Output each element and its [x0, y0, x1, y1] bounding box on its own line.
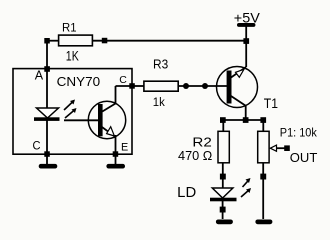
svg-text:LD: LD: [177, 185, 196, 201]
svg-text:A: A: [35, 68, 44, 82]
svg-text:T1: T1: [264, 95, 278, 111]
svg-text:OUT: OUT: [290, 151, 318, 165]
svg-text:C: C: [119, 74, 127, 86]
svg-text:C: C: [33, 139, 41, 153]
svg-text:+5V: +5V: [234, 10, 260, 25]
svg-text:1k: 1k: [153, 95, 166, 109]
svg-text:R1: R1: [62, 23, 77, 35]
svg-text:R3: R3: [153, 58, 168, 72]
svg-text:E: E: [121, 142, 128, 154]
svg-text:CNY70: CNY70: [57, 75, 101, 89]
svg-text:P1: 10k: P1: 10k: [280, 126, 318, 140]
svg-text:470 Ω: 470 Ω: [178, 148, 213, 163]
svg-text:1K: 1K: [66, 48, 79, 63]
